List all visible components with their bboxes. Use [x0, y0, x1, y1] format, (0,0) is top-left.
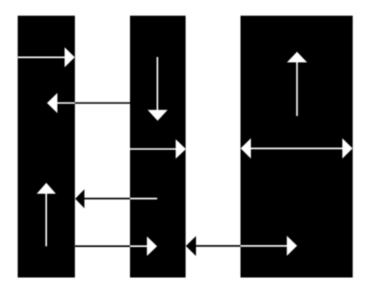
bar: middle column: [130, 16, 186, 278]
arrow: down arrow inside middle column: [148, 57, 168, 121]
arrow: up arrow inside right column: [287, 52, 307, 116]
bar: right column: [241, 16, 353, 278]
bar: left column: [18, 16, 75, 278]
arrow: up arrow inside left column: [37, 183, 56, 247]
arrow: double-headed arrow between middle column edge and right column centre: [186, 236, 297, 256]
arrow: left arrow from middle column edge into left column: [47, 93, 130, 113]
arrow: double-headed horizontal arrow inside right column: [241, 138, 353, 158]
arrow: right arrow inside left column (top): [18, 47, 75, 67]
arrow: right arrow inside middle column: [130, 139, 186, 159]
arrow: left arrow from middle column centre to left column edge: [75, 189, 157, 208]
arrow: right arrow from left column edge to middle column centre: [75, 236, 157, 256]
